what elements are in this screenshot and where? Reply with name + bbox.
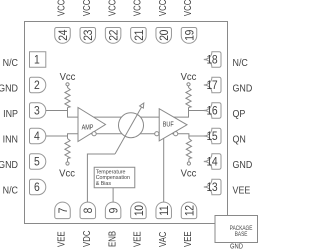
svg-text:N/C: N/C	[3, 185, 18, 197]
svg-text:16: 16	[207, 105, 218, 118]
svg-text:9: 9	[108, 208, 121, 214]
left pin label N/C	[3, 185, 18, 197]
svg-text:VEE: VEE	[132, 231, 143, 247]
pin 12	[181, 202, 197, 219]
pin 20	[156, 28, 172, 44]
right pin label QP	[233, 108, 246, 120]
top pin label VCC	[81, 0, 92, 16]
pin 2	[29, 77, 45, 93]
svg-text:13: 13	[207, 182, 218, 195]
svg-text:8: 8	[83, 208, 96, 214]
Vcc terminal (QN load)	[187, 162, 190, 165]
op-amp AMP	[78, 108, 106, 142]
Vcc label (INN bias)	[59, 168, 75, 179]
attenuator control arrow	[115, 103, 144, 154]
svg-text:VCC: VCC	[56, 0, 67, 16]
svg-text:17: 17	[207, 80, 218, 93]
pin 3	[29, 103, 45, 119]
top pin label VCC	[132, 0, 143, 16]
svg-text:VEE: VEE	[56, 231, 67, 247]
buffer BUF	[159, 109, 187, 141]
Vcc label (INP bias)	[60, 72, 76, 83]
left pin label GND	[0, 159, 18, 171]
right pin label GND	[233, 159, 253, 171]
svg-text:QN: QN	[233, 134, 246, 146]
svg-text:Vcc: Vcc	[181, 168, 197, 179]
svg-text:23: 23	[83, 30, 96, 41]
svg-text:QP: QP	[233, 108, 246, 120]
svg-text:GND: GND	[0, 83, 18, 95]
svg-text:11: 11	[159, 205, 172, 215]
variable attenuator	[119, 113, 144, 138]
svg-text:15: 15	[207, 131, 218, 144]
pin 11	[156, 202, 172, 219]
svg-text:BUF: BUF	[163, 121, 174, 129]
wire AMP output N	[91, 133, 120, 135]
right pin label QN	[233, 134, 246, 146]
pin 7	[55, 202, 71, 219]
wire attenuator to BUF N	[120, 133, 160, 135]
inverting marker BUF input	[155, 132, 159, 136]
temperature compensation and bias block	[94, 167, 135, 188]
inverting marker AMP output	[92, 132, 96, 136]
bottom pin label VEE	[182, 231, 193, 247]
pin 24	[55, 28, 71, 44]
left pin label INP	[3, 108, 18, 120]
bottom pin label VDC	[81, 230, 92, 247]
pin 19	[181, 28, 197, 44]
pin 6	[30, 179, 46, 195]
svg-text:Vcc: Vcc	[60, 72, 76, 83]
bottom pin label VAC	[157, 231, 168, 247]
svg-text:12: 12	[184, 205, 197, 216]
bottom pin label VEE	[132, 231, 143, 247]
bottom pin label ENB	[106, 231, 117, 247]
svg-text:ENB: ENB	[106, 231, 117, 247]
pin 22	[105, 28, 121, 44]
svg-text:22: 22	[108, 30, 121, 41]
wire QP BUF to pin16	[174, 111, 205, 118]
svg-text:10: 10	[133, 205, 146, 216]
Vcc terminal (QP load)	[187, 83, 190, 86]
wire AMP output P	[94, 116, 120, 118]
wire VDC control	[87, 154, 115, 202]
svg-text:VCC: VCC	[132, 0, 143, 16]
svg-text:Vcc: Vcc	[59, 168, 75, 179]
svg-text:6: 6	[34, 182, 40, 195]
Vcc terminal (INN bias)	[66, 162, 69, 165]
svg-text:& Bias: & Bias	[96, 181, 112, 187]
svg-text:2: 2	[34, 80, 40, 93]
wire INP pin3 to AMP	[46, 111, 78, 118]
svg-text:VCC: VCC	[182, 0, 193, 16]
pin 23	[80, 28, 96, 44]
left pin label INN	[3, 134, 18, 146]
wire VAC pin11 to BUF	[163, 138, 165, 202]
svg-text:VEE: VEE	[233, 185, 251, 197]
svg-text:GND: GND	[233, 159, 253, 171]
resistor (QN Vcc load)	[186, 136, 191, 162]
pin 4	[29, 128, 45, 144]
resistor (INN Vcc bias)	[65, 136, 70, 162]
svg-text:5: 5	[34, 156, 40, 169]
svg-text:Vcc: Vcc	[181, 72, 197, 83]
svg-text:4: 4	[34, 131, 40, 144]
inverting marker BUF output	[174, 132, 178, 136]
resistor (QP Vcc load)	[186, 86, 191, 111]
pin 16	[204, 103, 221, 119]
pin 15	[204, 128, 221, 144]
top pin label VCC	[182, 0, 193, 16]
package base paddle	[215, 216, 258, 243]
svg-text:GND: GND	[233, 83, 253, 95]
right pin label N/C	[233, 57, 248, 69]
svg-text:19: 19	[184, 30, 197, 41]
right pin label VEE	[233, 185, 251, 197]
svg-text:INP: INP	[3, 108, 18, 120]
Vcc label (QP load)	[181, 72, 197, 83]
pin 21	[131, 28, 147, 44]
right pin label GND	[233, 83, 253, 95]
svg-text:20: 20	[159, 30, 172, 41]
svg-text:VAC: VAC	[157, 231, 168, 247]
package base GND label	[230, 243, 243, 250]
svg-text:7: 7	[57, 208, 70, 214]
chip package outline	[25, 22, 228, 224]
wire ENB pin9 to bias block	[112, 188, 114, 202]
wire INN pin4 to AMP	[46, 134, 78, 136]
pin 14	[204, 154, 221, 170]
bottom pin label VEE	[56, 231, 67, 247]
Vcc terminal (INP bias)	[66, 83, 69, 86]
svg-text:1: 1	[34, 54, 40, 67]
pin 18	[204, 52, 221, 68]
svg-text:VCC: VCC	[106, 0, 117, 16]
svg-text:VDC: VDC	[81, 230, 92, 247]
top pin label VCC	[56, 0, 67, 16]
svg-text:21: 21	[133, 30, 146, 41]
pin 13	[204, 179, 221, 195]
pin 5	[29, 154, 45, 170]
Vcc label (QN load)	[181, 168, 197, 179]
top pin label VCC	[157, 0, 168, 16]
svg-text:BASE: BASE	[235, 232, 248, 239]
pin 9	[105, 202, 121, 219]
left pin label GND	[0, 83, 18, 95]
pin 8	[80, 202, 96, 219]
svg-text:24: 24	[57, 30, 70, 41]
wire attenuator to BUF P	[120, 116, 160, 118]
svg-text:N/C: N/C	[233, 57, 248, 69]
wire QN BUF to pin15	[172, 134, 204, 136]
pin 1	[30, 52, 46, 68]
svg-text:INN: INN	[3, 134, 18, 146]
svg-text:18: 18	[207, 54, 218, 67]
svg-text:GND: GND	[0, 159, 18, 171]
svg-text:VEE: VEE	[182, 231, 193, 247]
svg-text:14: 14	[207, 156, 218, 169]
svg-text:GND: GND	[230, 243, 243, 250]
top pin label VCC	[106, 0, 117, 16]
left pin label N/C	[3, 57, 18, 69]
svg-text:3: 3	[34, 105, 40, 118]
svg-text:VCC: VCC	[157, 0, 168, 16]
pin 17	[204, 77, 221, 93]
svg-text:VCC: VCC	[81, 0, 92, 16]
svg-text:N/C: N/C	[3, 57, 18, 69]
pin 10	[131, 202, 147, 219]
svg-text:AMP: AMP	[82, 124, 94, 132]
resistor (INP Vcc bias)	[65, 86, 70, 111]
